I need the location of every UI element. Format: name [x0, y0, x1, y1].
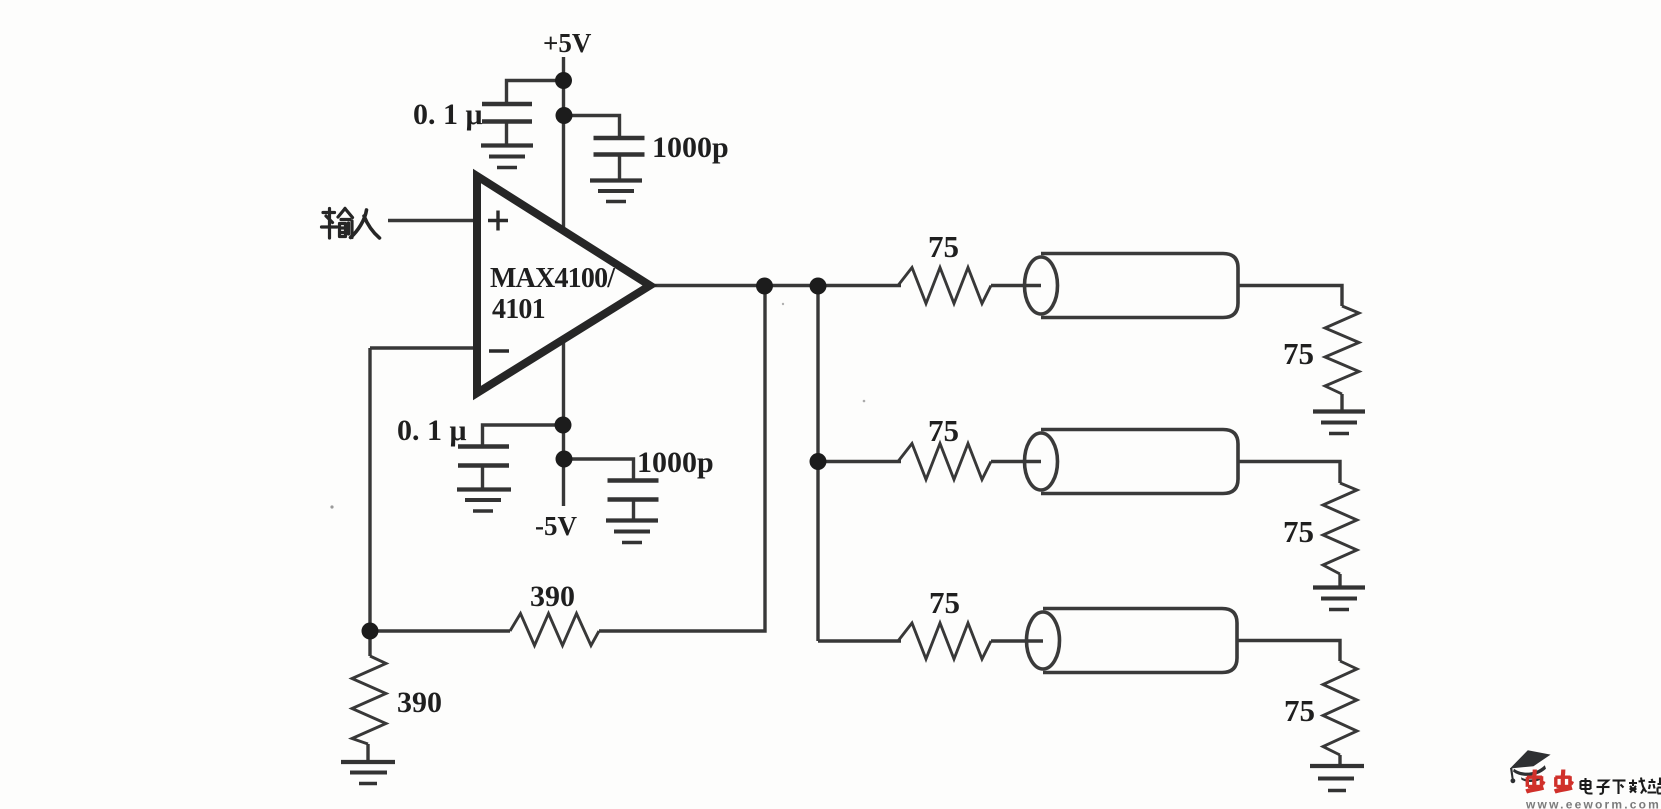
svg-text:390: 390: [530, 580, 575, 613]
svg-text:75: 75: [1283, 336, 1314, 371]
svg-text:-5V: -5V: [535, 511, 577, 541]
svg-text:www.eeworm.com: www.eeworm.com: [1525, 798, 1661, 809]
svg-text:390: 390: [397, 686, 442, 719]
svg-text:4101: 4101: [492, 294, 545, 325]
svg-text:0. 1 μ: 0. 1 μ: [413, 98, 483, 131]
svg-text:75: 75: [928, 229, 959, 264]
svg-text:75: 75: [929, 585, 960, 620]
svg-text:75: 75: [1283, 514, 1314, 549]
svg-text:0. 1 μ: 0. 1 μ: [397, 414, 467, 447]
svg-text:+5V: +5V: [543, 28, 592, 58]
svg-text:75: 75: [928, 413, 959, 448]
svg-text:1000p: 1000p: [652, 131, 729, 164]
svg-text:MAX4100/: MAX4100/: [490, 263, 616, 294]
svg-text:1000p: 1000p: [637, 446, 714, 479]
svg-text:75: 75: [1284, 693, 1315, 728]
